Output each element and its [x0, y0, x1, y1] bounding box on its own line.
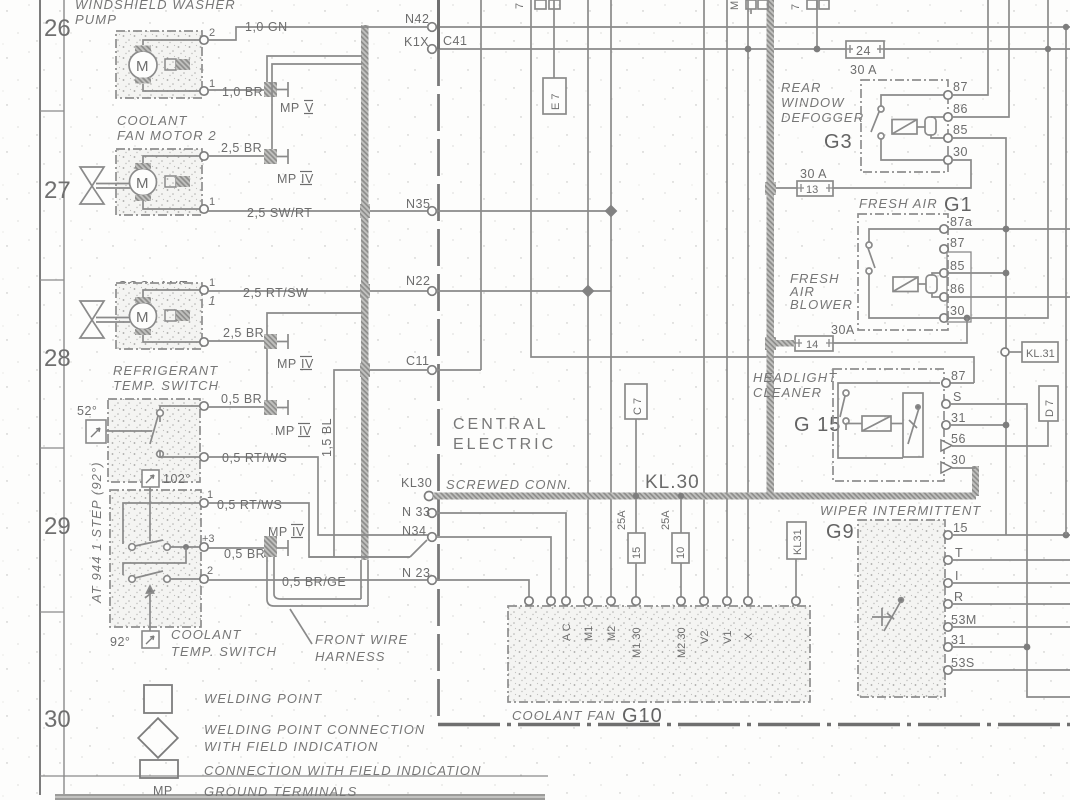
welding junction N35/M2: [605, 205, 618, 218]
svg-text:R: R: [954, 590, 964, 604]
svg-text:DEFOGGER: DEFOGGER: [781, 110, 864, 125]
svg-text:30: 30: [953, 145, 968, 159]
svg-text:1: 1: [209, 78, 215, 90]
svg-text:BLOWER: BLOWER: [790, 297, 853, 312]
KL30 terminal: [425, 492, 434, 501]
svg-text:14: 14: [806, 339, 818, 351]
junction stage1/stage2: [183, 544, 189, 550]
svg-text:1,0 BR: 1,0 BR: [222, 85, 263, 99]
svg-text:10: 10: [675, 547, 687, 559]
svg-text:31: 31: [951, 411, 966, 425]
motor 1 terminal bottom: [200, 338, 208, 346]
svg-text:13: 13: [806, 184, 818, 196]
svg-text:CENTRAL: CENTRAL: [453, 416, 549, 433]
svg-text:+3: +3: [202, 533, 215, 545]
wire G3 30 to fuse 13: [833, 160, 971, 188]
G1 pin 86: [940, 293, 948, 301]
KL30 bus feed up to G15 pin 30: [972, 466, 979, 496]
G1 pin 85: [940, 269, 948, 277]
svg-text:52°: 52°: [77, 404, 97, 418]
svg-text:30: 30: [950, 304, 965, 318]
svg-text:92°: 92°: [110, 635, 130, 649]
svg-text:28: 28: [44, 345, 71, 372]
fan unit pin M2 30: [677, 597, 685, 605]
fan unit pin X: [744, 597, 752, 605]
svg-text:A C: A C: [561, 623, 573, 641]
wire 1,0BR to MP V: [208, 89, 264, 91]
welding blob band fuse13: [765, 182, 776, 195]
G15 pin S: [942, 400, 950, 408]
wire N34 to fan pin 2: [436, 537, 551, 597]
svg-text:KL.31: KL.31: [1026, 348, 1055, 360]
svg-text:1: 1: [207, 489, 213, 501]
svg-text:2: 2: [209, 27, 215, 39]
wire G3 87 up: [952, 0, 988, 95]
svg-text:SCREWED CONN.: SCREWED CONN.: [446, 477, 572, 492]
svg-text:27: 27: [44, 177, 71, 204]
welding blob ground band row28: [360, 284, 370, 298]
wire G15 S right then down: [950, 404, 1070, 697]
junction 31/S column: [1024, 644, 1031, 651]
wire G1 87a right: [948, 228, 1070, 230]
svg-text:N34: N34: [402, 524, 426, 538]
terminal KL31 right: [1001, 348, 1009, 356]
svg-text:0,5 BR: 0,5 BR: [221, 392, 262, 406]
wire: vertical trunk X (x748): [747, 0, 749, 598]
front wire harness pointer: [290, 609, 312, 644]
svg-text:S: S: [953, 390, 962, 404]
junction C7 feed on KL30 bus: [633, 493, 639, 499]
coolant fan motor 2 box: [116, 149, 202, 215]
junction 87a column: [1003, 226, 1010, 233]
node N42 terminal: [428, 23, 437, 32]
relay G15 box: [833, 369, 944, 481]
svg-text:TEMP. SWITCH: TEMP. SWITCH: [113, 378, 219, 393]
svg-text:AT 944 1 STEP (92°): AT 944 1 STEP (92°): [89, 461, 104, 604]
frame: row tick 29/30: [40, 611, 64, 613]
svg-text:1,5 BL: 1,5 BL: [320, 418, 334, 457]
svg-text:1,0 GN: 1,0 GN: [245, 20, 288, 34]
fan unit pin AC: [562, 597, 570, 605]
G1 pin label frame: [947, 252, 971, 322]
coolant switch internals stage 1: [123, 487, 201, 550]
wire G9 15 right: [952, 534, 1070, 536]
refrigerant switch terminal top: [200, 402, 208, 410]
fan unit pin M2: [607, 597, 615, 605]
wire G9 53M right: [952, 626, 1070, 628]
svg-text:G9: G9: [826, 521, 855, 543]
svg-text:G10: G10: [622, 705, 663, 727]
svg-text:CONNECTION WITH FIELD INDICATI: CONNECTION WITH FIELD INDICATION: [204, 763, 482, 778]
wire 0,5BR to MP IV row29: [208, 547, 264, 549]
washer pump terminal 2: [200, 36, 208, 44]
svg-text:REAR: REAR: [781, 80, 822, 95]
front wire harness outline: [267, 557, 368, 606]
coolant switch terminal +3: [200, 543, 208, 551]
svg-text:29: 29: [44, 513, 71, 540]
wire 2,5BR to MP IV row28: [208, 340, 264, 342]
wire N23 to fan pin 1: [436, 580, 529, 597]
svg-text:87: 87: [953, 80, 968, 94]
svg-text:KL31: KL31: [792, 529, 804, 555]
svg-text:2,5 SW/RT: 2,5 SW/RT: [247, 206, 312, 220]
node N33 terminal: [428, 509, 437, 518]
wire G15 56 to D7: [952, 421, 1048, 446]
wire G15 30 stub: [952, 467, 975, 469]
wire G9 53S right: [952, 669, 1070, 671]
svg-text:1: 1: [209, 277, 215, 289]
frame: row-number column line: [63, 0, 65, 795]
svg-text:WELDING POINT: WELDING POINT: [204, 691, 322, 706]
fuse 24 (30A): [846, 41, 884, 58]
wire G3 86 up: [952, 0, 1009, 117]
connector C7: [625, 384, 647, 419]
svg-text:102°: 102°: [163, 472, 191, 486]
welding point MP IV row29: [264, 536, 277, 557]
connector plug top (7): [535, 0, 560, 9]
svg-text:MP: MP: [275, 424, 295, 438]
wire G1 85 right: [948, 272, 1006, 274]
frame: bottom margin line: [40, 775, 548, 777]
connector E7: [543, 78, 566, 114]
legend: welding point connection symbol: [138, 718, 178, 758]
svg-text:MP: MP: [280, 101, 300, 115]
wire G9 R right: [952, 603, 1070, 605]
relay G1 box: [858, 214, 948, 330]
fan symbol motor 1: [80, 301, 130, 338]
svg-text:WINDOW: WINDOW: [781, 95, 845, 110]
svg-text:COOLANT: COOLANT: [117, 113, 188, 128]
G9 pin I: [944, 579, 952, 587]
junction 31 column: [1003, 422, 1010, 429]
svg-text:G 15: G 15: [794, 414, 841, 436]
fan unit pin KL31: [792, 597, 800, 605]
svg-text:15: 15: [953, 521, 968, 535]
terminal KL31 left box: [787, 522, 806, 559]
svg-text:25A: 25A: [660, 510, 672, 530]
diagonal into N34: [410, 540, 427, 557]
svg-text:30 A: 30 A: [800, 167, 827, 181]
svg-text:MP: MP: [153, 784, 173, 798]
relay G3 box: [861, 80, 948, 172]
G1 pin 87: [940, 245, 948, 253]
svg-text:85: 85: [950, 259, 965, 273]
svg-text:86: 86: [953, 102, 968, 116]
G1 pin 30: [940, 314, 948, 322]
svg-text:30A: 30A: [831, 323, 855, 337]
svg-text:53S: 53S: [951, 656, 975, 670]
svg-text:C41: C41: [443, 34, 467, 48]
svg-text:87a: 87a: [950, 215, 972, 229]
coolant switch terminal 2: [200, 575, 208, 583]
frame: row tick 26/27: [40, 110, 64, 112]
node C11 terminal: [428, 366, 437, 375]
refrigerant temp switch box: [108, 399, 200, 482]
svg-text:MP: MP: [277, 172, 297, 186]
wire fuse13 to band: [770, 187, 797, 189]
junction 85 column: [1003, 270, 1010, 277]
svg-text:REFRIGERANT: REFRIGERANT: [113, 363, 218, 378]
windshield washer pump box: [116, 31, 202, 98]
svg-text:7: 7: [514, 3, 526, 9]
G15 pin 31: [942, 421, 950, 429]
svg-text:TEMP. SWITCH: TEMP. SWITCH: [171, 644, 277, 659]
motor 1 terminal 1: [200, 286, 208, 294]
G9 pin 15: [944, 531, 952, 539]
G3 pin 30: [944, 156, 952, 164]
svg-text:MP: MP: [277, 357, 297, 371]
svg-text:CLEANER: CLEANER: [753, 385, 822, 400]
svg-text:C11: C11: [406, 354, 430, 368]
wiper intermittent relay G9 box: [858, 520, 945, 697]
junction fuse10 feed on KL30 bus: [678, 493, 684, 499]
svg-text:FRESH AIR: FRESH AIR: [859, 196, 938, 211]
wire: vertical trunk M1 (x588): [587, 0, 589, 598]
wire N22 to M1 trunk: [436, 290, 611, 292]
svg-text:PUMP: PUMP: [75, 12, 117, 27]
svg-text:WITH FIELD INDICATION: WITH FIELD INDICATION: [204, 739, 379, 754]
welding point MP IV row28: [264, 334, 277, 349]
svg-text:87: 87: [951, 369, 966, 383]
fuse 13 (30A): [797, 181, 833, 196]
wire fuse14 to G1 30: [833, 318, 967, 343]
welding point MP IV row28b: [264, 400, 277, 415]
G9 internal wiper symbol: [872, 598, 903, 631]
wire C11 left to ground band and 1,5BL drop: [334, 370, 428, 557]
svg-text:WIPER INTERMITTENT: WIPER INTERMITTENT: [820, 503, 981, 518]
svg-text:0,5 BR/GE: 0,5 BR/GE: [282, 575, 346, 589]
wire C7 to KL30 bus: [635, 419, 637, 493]
svg-text:N42: N42: [405, 12, 429, 26]
fan symbol motor 2: [80, 167, 130, 204]
wire C11 right to trunk x481: [436, 369, 481, 371]
legend: welding point symbol: [144, 685, 172, 713]
wire G15 87 feed: [950, 382, 974, 384]
svg-text:KL30: KL30: [401, 476, 432, 490]
wire 0,5 RT/WS to N34: [208, 457, 428, 535]
svg-text:C 7: C 7: [632, 398, 644, 415]
svg-text:FAN MOTOR 2: FAN MOTOR 2: [117, 128, 217, 143]
welding point MP V: [264, 82, 277, 97]
welding blob band fuse14: [765, 337, 776, 350]
svg-text:COOLANT FAN: COOLANT FAN: [512, 708, 616, 723]
connector plug top middle: [746, 0, 768, 14]
power harness band x770: [767, 0, 775, 496]
welding blob ground band row27: [360, 204, 370, 218]
svg-text:COOLANT: COOLANT: [171, 627, 242, 642]
wire G3 85 down right column: [952, 138, 1006, 535]
svg-text:N35: N35: [406, 197, 430, 211]
node N35 terminal: [428, 207, 437, 216]
svg-text:M: M: [136, 175, 149, 192]
ground harness band (MP bus): [361, 25, 369, 560]
svg-text:D 7: D 7: [1044, 400, 1056, 417]
G3 pin 85: [944, 134, 952, 142]
wire: vertical stub x817 to K1X line: [816, 0, 818, 49]
welding point MP IV row27: [264, 149, 277, 164]
svg-text:7: 7: [790, 4, 802, 10]
svg-text:I: I: [955, 569, 959, 583]
svg-text:E 7: E 7: [550, 93, 562, 110]
svg-text:X: X: [743, 632, 755, 640]
connector plug top right: [807, 0, 829, 9]
wire fuse14 heavy lead to band: [768, 340, 795, 347]
svg-text:M: M: [136, 309, 149, 326]
svg-text:M: M: [136, 58, 149, 75]
svg-text:M1: M1: [583, 626, 595, 641]
wire G9 31 right: [952, 646, 1027, 648]
motor 2 terminal 1: [200, 205, 208, 213]
wire 2,5BR to MP IV: [208, 155, 264, 157]
svg-text:31: 31: [951, 633, 966, 647]
washer pump terminal 1: [200, 87, 208, 95]
junction 15/right column: [1063, 532, 1070, 539]
svg-text:25A: 25A: [616, 510, 628, 530]
central electric boundary: solid top of dashed bus: [437, 0, 440, 49]
svg-text:0,5 RT/WS: 0,5 RT/WS: [222, 451, 287, 465]
G3 pin 87: [944, 91, 952, 99]
wire 1,5BL tee into harness wire: [309, 556, 410, 558]
svg-text:53M: 53M: [951, 613, 977, 627]
svg-text:N22: N22: [406, 274, 430, 288]
svg-text:M2: M2: [606, 626, 618, 641]
coolant fan control unit G10 box: [508, 606, 810, 702]
junction fuse14 feed: [964, 315, 971, 322]
MP IV upper link to ground band: [272, 64, 362, 149]
coolant switch internals stage 2: [123, 547, 201, 631]
coolant switch terminal 1: [200, 499, 208, 507]
G3 internals: [871, 95, 944, 160]
MP V link to ground band: [267, 56, 362, 82]
wire G9 I right: [952, 582, 1070, 584]
wire 0,5 RT/WS via harness: [208, 503, 410, 557]
KL30 heavy bus: [433, 493, 976, 500]
svg-text:M1 30: M1 30: [631, 627, 643, 658]
svg-text:T: T: [955, 546, 963, 560]
MP IV row28 link to ground band: [267, 313, 362, 334]
wire 0,5BR/GE to N23: [208, 579, 428, 581]
wire N33 to fan pin AC: [436, 513, 566, 597]
welding junction N22/M1: [582, 285, 595, 298]
svg-text:N 33: N 33: [402, 505, 430, 519]
junction on K1X line at x748: [745, 46, 752, 53]
wire: vertical trunk x483 to C11: [480, 0, 482, 370]
node N22 terminal: [428, 287, 437, 296]
wire: vertical trunk x531 feeding headlight-cleaner 87: [531, 0, 974, 383]
refrigerant switch terminal bottom: [200, 453, 208, 461]
central electric boundary: dashed vertical: [437, 49, 440, 723]
G15 pin 56 arrow: [941, 440, 952, 451]
svg-text:85: 85: [953, 123, 968, 137]
node K1X terminal: [428, 45, 437, 54]
wire: vertical trunk V2 (x704): [703, 0, 705, 598]
G9 pin R: [944, 600, 952, 608]
fan unit pin M1: [584, 597, 592, 605]
svg-text:M: M: [729, 1, 741, 10]
wire G9 T right: [952, 559, 1070, 561]
temp sensor 102 deg: [142, 470, 159, 487]
svg-text:2,5 BR: 2,5 BR: [223, 326, 264, 340]
svg-text:MP: MP: [268, 525, 288, 539]
wire 2,5 SW/RT to N35: [208, 210, 428, 212]
svg-text:V2: V2: [699, 631, 711, 644]
svg-text:30 A: 30 A: [850, 63, 877, 77]
fan unit pin M1 30: [632, 597, 640, 605]
G15 pin 30 arrow: [941, 462, 952, 473]
svg-text:WINDSHIELD WASHER: WINDSHIELD WASHER: [75, 0, 236, 12]
wire 1,0GN to N42: [208, 27, 428, 40]
svg-text:2,5 RT/SW: 2,5 RT/SW: [243, 286, 308, 300]
page edge band bottom: [55, 794, 545, 800]
svg-text:15: 15: [631, 547, 643, 559]
fan unit pin 1: [525, 597, 533, 605]
svg-text:87: 87: [950, 236, 965, 250]
svg-text:30: 30: [951, 453, 966, 467]
G15 internals: [838, 383, 940, 458]
svg-text:26: 26: [44, 15, 71, 42]
svg-text:GROUND TERMINALS: GROUND TERMINALS: [204, 784, 357, 799]
svg-text:G1: G1: [944, 194, 973, 216]
svg-text:G3: G3: [824, 131, 853, 153]
svg-text:ELECTRIC: ELECTRIC: [453, 436, 556, 453]
svg-text:56: 56: [951, 432, 966, 446]
wire G1 86 right: [948, 296, 1070, 298]
coolant fan motor 1 box: [116, 283, 202, 349]
node K1X / C41 bus line: [436, 48, 1070, 50]
G1 internals: [866, 229, 940, 318]
G9 pin 53M: [944, 623, 952, 631]
wire 2,5 RT/SW to N22: [208, 290, 428, 292]
svg-text:M2 30: M2 30: [676, 627, 688, 658]
fan unit pin 2: [547, 597, 555, 605]
G9 pin 53S: [944, 666, 952, 674]
wire 0,5BR to MP IV: [208, 406, 264, 408]
fuse 15 (25A): [635, 499, 637, 533]
motor 2 terminal 2: [200, 152, 208, 160]
node N42 bus line: [436, 26, 1070, 28]
node N23 terminal: [428, 576, 437, 585]
G15 pin 87: [942, 379, 950, 387]
refrigerant switch internals: [106, 406, 200, 457]
svg-text:WELDING POINT CONNECTION: WELDING POINT CONNECTION: [204, 722, 425, 737]
frame: row tick 28/29: [40, 447, 64, 449]
svg-text:1: 1: [209, 196, 215, 208]
svg-text:30: 30: [44, 706, 71, 733]
wire G1 30 up: [948, 0, 1048, 318]
svg-text:FRONT WIRE: FRONT WIRE: [315, 632, 408, 647]
junction on K1X line at x817: [814, 46, 821, 53]
svg-text:2,5 BR: 2,5 BR: [221, 141, 262, 155]
svg-text:HEADLIGHT: HEADLIGHT: [753, 370, 837, 385]
svg-text:HARNESS: HARNESS: [315, 649, 386, 664]
fan unit pin V1: [723, 597, 731, 605]
wire: E7 drop: [553, 0, 555, 78]
svg-text:KL.30: KL.30: [645, 472, 700, 493]
wire: vertical trunk V1 (x727): [726, 0, 728, 598]
coolant temp switch box: [110, 490, 201, 627]
diode D7: [1039, 386, 1058, 421]
G3 pin 86: [944, 113, 952, 121]
right column x1066: [1065, 27, 1067, 535]
G9 pin T: [944, 556, 952, 564]
svg-text:N 23: N 23: [402, 566, 430, 580]
svg-text:V1: V1: [722, 631, 734, 644]
wire G15 31 right: [950, 424, 1006, 426]
svg-text:2: 2: [207, 565, 213, 577]
welding blob ground band at C11: [360, 363, 370, 377]
wire: vertical trunk M2 (x611): [610, 0, 612, 598]
fuse 10 (25A): [680, 499, 682, 533]
